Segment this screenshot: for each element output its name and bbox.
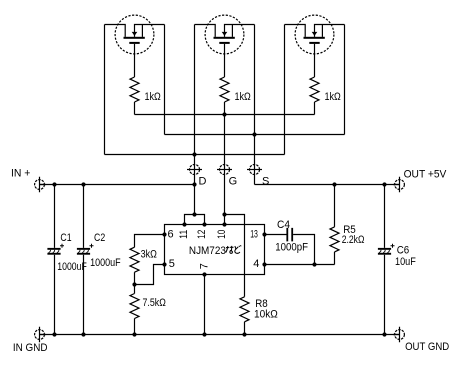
junction D / bracket <box>192 212 196 216</box>
svg-text:1kΩ: 1kΩ <box>235 91 251 103</box>
wire pin 7 to ground <box>204 275 206 335</box>
pin 5 dot <box>162 262 166 266</box>
svg-text:12: 12 <box>196 230 208 239</box>
terminal IN GND <box>35 327 46 342</box>
junction divider tap <box>132 282 136 286</box>
wire gate rail <box>135 114 315 116</box>
junction C6 top <box>382 182 386 186</box>
svg-text:C6: C6 <box>397 244 410 256</box>
wire Q2 source side down to output rail <box>254 25 256 185</box>
wire Q2 gate column down to pin10 <box>224 115 226 225</box>
resistor 7.5k <box>130 285 139 335</box>
transistor Q3 (MOSFET in dashed circle) <box>285 15 345 77</box>
capacitor C2 1000uF <box>77 185 94 335</box>
svg-text:NJM723: NJM723 <box>189 245 226 257</box>
node G (connector) <box>217 165 232 175</box>
capacitor C1 1000uF <box>47 185 64 335</box>
transistor Q2 (MOSFET in dashed circle) <box>195 15 255 77</box>
wire Q3 source side (box right) <box>344 25 346 135</box>
svg-text:G: G <box>229 176 238 188</box>
wire Q1 source side (box right) <box>164 25 166 135</box>
terminal OUT +5V <box>393 177 404 192</box>
wire drain rail <box>105 154 285 156</box>
op-amp regulator U1 NJM723 box <box>165 225 265 275</box>
pin 12 dot <box>202 222 206 226</box>
wire pin 6 to 3k <box>135 235 165 248</box>
svg-text:4: 4 <box>253 258 259 270</box>
svg-text:C2: C2 <box>94 232 105 244</box>
junction source rail / S column <box>252 132 256 136</box>
svg-text:3kΩ: 3kΩ <box>141 249 157 261</box>
svg-text:10uF: 10uF <box>395 256 416 268</box>
pin 11 dot <box>182 222 186 226</box>
resistor 3k <box>130 247 139 284</box>
resistor R8 10k <box>240 297 249 335</box>
svg-text:1kΩ: 1kΩ <box>145 91 161 103</box>
junction pin7 bottom <box>202 332 206 336</box>
junction C1 bottom <box>52 332 56 336</box>
pin 10 dot <box>222 222 226 226</box>
svg-text:1kΩ: 1kΩ <box>325 91 341 103</box>
svg-text:6: 6 <box>168 228 174 240</box>
wire Q1 drain side (box left) <box>104 25 106 155</box>
wire pin 4 rail <box>265 264 335 266</box>
resistor R-gate1 1k <box>130 77 139 115</box>
resistor R-gate3 1k <box>310 77 319 115</box>
svg-text:OUT GND: OUT GND <box>405 341 449 353</box>
svg-text:10: 10 <box>216 230 228 239</box>
resistor R5 2.2k <box>330 185 339 265</box>
wire pin 5 jog to divider tap <box>135 265 165 285</box>
junction C4 branch / pin4 rail <box>312 262 316 266</box>
svg-text:D: D <box>199 176 207 188</box>
svg-text:7: 7 <box>199 263 211 269</box>
wire Q3 drain side (box left) <box>284 25 286 155</box>
capacitor C6 10uF <box>378 185 395 335</box>
transistor Q1 (MOSFET in dashed circle) <box>105 15 165 77</box>
wire source rail <box>165 134 345 136</box>
junction drain rail / D column <box>192 152 196 156</box>
junction C2 bottom <box>81 332 85 336</box>
terminal OUT GND <box>393 327 404 342</box>
wire IN+ rail <box>40 184 195 186</box>
junction C2 top <box>81 182 85 186</box>
node D (connector) <box>187 165 202 175</box>
svg-text:1000uF: 1000uF <box>90 257 121 269</box>
junction R5 top <box>332 182 336 186</box>
wire pins 11/12 bracket to D <box>185 215 205 225</box>
svg-text:11: 11 <box>178 230 190 239</box>
capacitor C4 1000pF <box>286 228 293 242</box>
junction C6 bottom <box>382 332 386 336</box>
junction C1 top <box>52 182 56 186</box>
svg-text:7.5kΩ: 7.5kΩ <box>143 297 166 309</box>
svg-text:5: 5 <box>169 258 175 270</box>
pin 13 dot <box>262 232 266 236</box>
wire ground rail <box>40 334 400 336</box>
svg-text:S: S <box>262 176 269 188</box>
svg-text:OUT +5V: OUT +5V <box>404 169 447 181</box>
svg-text:10kΩ: 10kΩ <box>254 309 278 321</box>
pin 7 dot <box>202 272 206 276</box>
svg-text:C4: C4 <box>277 219 290 231</box>
wire C4 right to pin4 net <box>293 235 314 265</box>
wire pin 13 to C4 <box>265 234 287 236</box>
terminal IN+ <box>35 177 46 192</box>
svg-text:C1: C1 <box>60 232 71 244</box>
label U1 kana nado <box>226 245 242 253</box>
junction G column / R8 branch <box>222 212 226 216</box>
wire pin10 branch to R8 <box>225 215 245 297</box>
pin 4 dot <box>262 262 266 266</box>
svg-text:2.2kΩ: 2.2kΩ <box>342 234 365 246</box>
junction IN+ rail / D column <box>192 182 196 186</box>
svg-text:1000uF: 1000uF <box>57 261 87 273</box>
junction R8 bottom <box>242 332 246 336</box>
svg-text:13: 13 <box>250 228 258 240</box>
junction 7.5k bottom <box>132 332 136 336</box>
svg-text:IN GND: IN GND <box>13 342 48 354</box>
svg-text:IN +: IN + <box>11 168 30 180</box>
wire Q2 drain side down to D <box>194 25 196 215</box>
pin 6 dot <box>162 232 166 236</box>
junction gate rail / G column <box>222 112 226 116</box>
wire output +5V rail <box>255 184 400 186</box>
node S (connector) <box>247 165 262 175</box>
resistor R-gate2 1k <box>220 77 229 115</box>
svg-text:1000pF: 1000pF <box>275 242 308 254</box>
